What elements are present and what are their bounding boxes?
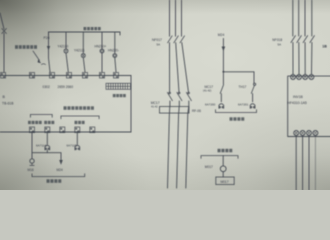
connector HN220 (113, 54, 117, 58)
phase wire L3 (182, 0, 189, 188)
arrow M24 (59, 160, 63, 165)
phase wire R2 (298, 0, 300, 74)
svg-text:2659 2660: 2659 2660 (58, 85, 74, 89)
terminal T4 (67, 73, 72, 79)
net bracket to heater (216, 110, 257, 113)
svg-text:0302: 0302 (43, 85, 51, 89)
wire net to M24 (32, 153, 61, 160)
contactor MC17 pole3 (186, 92, 191, 101)
breaker NF017 pole3 (180, 36, 185, 43)
breaker NF018 pole3 (303, 36, 308, 43)
phase wire R3 (304, 0, 306, 74)
connector M017 (220, 166, 226, 172)
wire P24 drop (49, 32, 51, 72)
wire to MC17 aux contact (221, 72, 223, 102)
connector Y42111 (81, 54, 85, 58)
label running-2 (75, 121, 85, 124)
motor wire E (314, 136, 316, 190)
terminal T1 (1, 73, 6, 79)
arrow on M24 feed (222, 47, 226, 52)
contact TH17 (251, 83, 255, 93)
contact MC17 aux (220, 85, 223, 94)
svg-text:MC17: MC17 (205, 85, 214, 89)
svg-text:P24: P24 (44, 36, 50, 40)
plug 6A7201 (250, 104, 255, 109)
label net from-controller (84, 27, 101, 30)
svg-text:M017: M017 (205, 165, 213, 169)
terminal board TB-61B outline (0, 76, 131, 133)
svg-text:HN220-: HN220- (108, 49, 119, 53)
net bracket (from controller) (49, 32, 121, 35)
breaker NF018 pole1 (291, 36, 296, 43)
terminal B2 bottom row (45, 127, 50, 133)
bracket manual-run group (61, 116, 99, 119)
terminal T3 (50, 73, 55, 79)
svg-text:MC17: MC17 (151, 101, 160, 105)
terminal T5 (83, 73, 88, 79)
plug 6A7200 (219, 104, 224, 109)
net bracket from heater (201, 156, 238, 159)
terminal T6 (100, 73, 105, 79)
plug 6A7115 (75, 145, 80, 150)
connector M16 (30, 159, 34, 166)
plug 6A7114 (45, 145, 50, 150)
phase wire L1 (168, 0, 170, 188)
svg-text:M16: M16 (28, 168, 34, 172)
svg-text:M017: M017 (221, 180, 229, 184)
inverter INV1B box (288, 76, 330, 136)
svg-text:Y42110: Y42110 (58, 44, 69, 48)
breaker NF017 pole1 (168, 36, 173, 43)
svg-text:M24: M24 (218, 33, 225, 37)
svg-text:5A: 5A (157, 42, 161, 46)
terminal B4 bottom row (75, 127, 80, 133)
wire incoming top-left (0, 13, 4, 72)
inverter output socket 4 (313, 131, 318, 136)
wire B2 to plug 6A7114 (46, 133, 48, 153)
wire B1 to M16 (31, 133, 33, 159)
svg-text:(41-42): (41-42) (203, 89, 211, 93)
svg-text:6A7200: 6A7200 (205, 102, 216, 106)
wire to connector Y42111 (83, 32, 85, 72)
wire to TH17 contact (253, 72, 254, 102)
breaker NF017 pole2 (174, 36, 179, 43)
connector Y42110 (64, 49, 68, 53)
contactor MC17 pole1 (167, 92, 172, 101)
svg-text:6A7114: 6A7114 (36, 144, 46, 148)
svg-text:6A7115: 6A7115 (67, 144, 77, 148)
label manual-run-group (64, 106, 94, 110)
label running-1 (44, 121, 54, 124)
inverter output socket 1 (294, 131, 299, 136)
motor wire W (308, 136, 310, 190)
inverter output socket 3 (307, 131, 312, 136)
terminal B3 bottom row (60, 127, 65, 133)
svg-text:TH17: TH17 (239, 85, 247, 89)
breaker NF018 pole2 (297, 36, 302, 43)
contactor MC17 pole2 (177, 92, 182, 101)
note arrow (soushi migiyori) (33, 51, 40, 61)
splice X mark on top-left wire (2, 29, 7, 34)
inverter output socket 2 (300, 131, 305, 136)
arrow on P24 wire (47, 46, 50, 51)
terminal T7 (114, 73, 119, 79)
svg-text:TB-61B: TB-61B (2, 101, 14, 105)
wire M24 feed (223, 39, 254, 72)
inverter input socket 4 (309, 75, 314, 80)
inverter input socket 2 (297, 75, 302, 80)
terminal T2 (30, 73, 35, 79)
svg-text:NF018: NF018 (272, 38, 282, 42)
phase wire L2 (176, 0, 180, 188)
svg-text:1B: 1B (322, 44, 327, 48)
bracket push-button group (30, 115, 52, 118)
label net from-heater (218, 149, 233, 153)
paper background (0, 0, 330, 190)
motor wire V (302, 136, 304, 190)
label net to-egg-handler (47, 179, 62, 183)
wire bracket to M017 connector (222, 156, 224, 166)
junction node (222, 71, 224, 73)
svg-text:6A7201: 6A7201 (238, 102, 249, 106)
wire B4 to plug 6A7115 (76, 133, 78, 145)
svg-text:Y42111: Y42111 (74, 49, 85, 53)
svg-text:5A: 5A (278, 42, 282, 46)
svg-text:INV1B: INV1B (293, 95, 304, 99)
net bracket to egg handler (32, 174, 85, 177)
noise filter RF-06 (160, 107, 190, 114)
label analog (113, 94, 126, 97)
phase wire R1 (292, 0, 294, 74)
label push-button (28, 121, 42, 124)
svg-text:M24: M24 (57, 168, 63, 172)
breaker pole4 (310, 36, 315, 43)
label net to-heater (230, 117, 245, 120)
wire to connector Y42110 (66, 32, 68, 72)
svg-text:HN210+: HN210+ (95, 44, 107, 48)
inverter input socket 3 (303, 75, 308, 80)
wire connector to M017 box (222, 172, 224, 177)
analog IF strip (106, 83, 131, 89)
twist mark on wire P24 (42, 63, 46, 66)
terminal B1 bottom row (30, 127, 35, 133)
wire to connector HN210 (101, 32, 103, 72)
svg-text:RF-06: RF-06 (192, 109, 201, 113)
wire to connector HN220 (115, 32, 116, 72)
motor wire U (295, 136, 297, 190)
inverter input socket 1 (291, 75, 296, 80)
terminal B5 bottom row (90, 127, 95, 133)
svg-text:41-42: 41-42 (151, 105, 158, 109)
box M017 (216, 177, 234, 185)
connector HN210 (100, 49, 104, 53)
phase wire R4 (311, 0, 313, 74)
label soushi-migiyori note (15, 45, 37, 49)
svg-text:HF4310-1A5: HF4310-1A5 (288, 101, 307, 105)
